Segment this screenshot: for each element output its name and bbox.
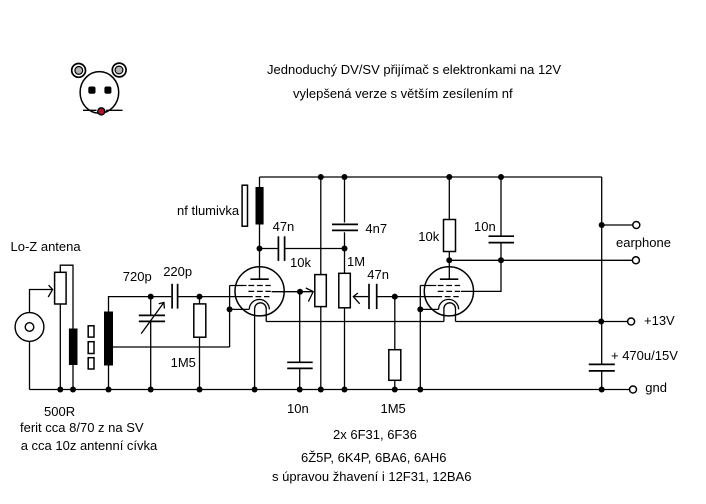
label 220p <box>163 265 192 278</box>
nf tlumivka coil <box>256 187 264 225</box>
V2 g3 tie to cathode and ground <box>419 286 421 390</box>
wire ground rail <box>30 389 630 391</box>
wire 220p to grid node <box>179 296 248 298</box>
variable capacitor 720p <box>139 297 165 390</box>
label 1M5 (tube1) <box>171 356 196 369</box>
V2 anode <box>448 260 450 279</box>
label tubes line 2 <box>301 451 447 464</box>
label antenni civka <box>21 439 158 452</box>
V1 g2 dashes <box>248 290 270 292</box>
wire heater rail left (tube1 to tube2) <box>266 321 444 323</box>
mouse nose <box>98 108 105 115</box>
label Lo-Z antena <box>11 240 81 253</box>
node +13V <box>598 319 604 325</box>
label tubes line 3 <box>272 470 471 483</box>
tube V2 (AF amplifier) <box>420 260 501 389</box>
V1 filament <box>255 303 267 390</box>
potentiometer 500R <box>55 272 67 304</box>
capacitor 10n output <box>489 177 515 260</box>
wire 1M5 top <box>394 297 396 350</box>
nf tlumivka core <box>242 185 247 226</box>
wire 10k top to rail <box>320 177 322 275</box>
tube V1 (detector) <box>230 249 285 390</box>
label 10n (bypass) <box>287 402 309 415</box>
V2 cathode arc <box>439 299 459 309</box>
node rail-4n7 <box>342 174 348 180</box>
mouse eyes <box>88 87 95 94</box>
main tuning coil on ferrite rod <box>104 312 113 366</box>
wiper arrow into 10k <box>306 288 313 302</box>
resistor 10k anode load tube2 <box>444 220 456 252</box>
node V1 g2 <box>297 289 303 295</box>
label earphone <box>616 236 671 249</box>
wire coil cathode tap <box>113 346 230 348</box>
capacitor 10n (screen bypass) <box>287 362 313 389</box>
capacitor 47n coupling (detector anode) <box>260 236 345 261</box>
wire antenna coil bottom to ground <box>72 365 74 390</box>
node rail-10n <box>498 174 504 180</box>
wire 1M5 top <box>199 297 201 304</box>
label + 470u/15V <box>611 349 678 362</box>
node earphone top <box>599 222 605 228</box>
label 720p <box>123 270 152 283</box>
node 220p-1M5 <box>197 294 203 300</box>
node 720p top <box>148 294 154 300</box>
wire 470u bottom to ground rail <box>601 371 603 390</box>
node V2 anode <box>446 257 452 263</box>
wire coil top to tuned node <box>109 297 172 312</box>
wire inductor bottom to anode node <box>259 225 261 249</box>
node rail-10k1 <box>318 174 324 180</box>
label 47n (grid2) <box>367 268 389 281</box>
label nf tlumivka <box>177 204 239 217</box>
wire inductor top to rail <box>259 177 261 187</box>
node V1 cathode <box>227 306 233 312</box>
node 4n7-1M <box>342 246 348 252</box>
wire 1M wiper to 47n <box>353 296 368 298</box>
ferrite rod <box>88 326 94 369</box>
resistor 1M5 grid leak tube1 <box>194 304 206 337</box>
label 10k (regen pot) <box>290 256 311 269</box>
capacitor 220p <box>172 284 178 309</box>
label tubes line 1 <box>333 428 417 441</box>
mouse whiskers <box>83 109 123 111</box>
V2 g2 dashes <box>438 290 460 292</box>
V2 g2 tie to anode supply <box>461 260 501 291</box>
label 10n (output) <box>474 220 496 233</box>
wire 1M bottom to ground <box>344 308 346 390</box>
node rail-10k2 <box>446 174 452 180</box>
wire 1M top <box>344 249 346 274</box>
resistor 1M5 grid leak tube2 <box>389 350 401 381</box>
label 4n7 <box>365 222 387 235</box>
V1 g3 tie to cathode <box>229 286 231 348</box>
V2 filament <box>444 303 456 322</box>
V1 g3 dashes <box>248 285 270 287</box>
wire 500R bottom to ground <box>59 304 61 390</box>
capacitor 47n coupling (tube2 grid) <box>369 284 437 309</box>
antenna jack J1 <box>15 313 44 342</box>
wire 10k bottom to ground <box>320 307 322 390</box>
terminal gnd <box>630 386 637 393</box>
wire 1M5 bottom to ground <box>394 380 396 389</box>
terminal +13V <box>628 318 635 325</box>
V1 cathode arc <box>249 299 269 309</box>
label 47n (detector) <box>273 220 295 233</box>
wire g2 node down to 10n <box>299 292 301 363</box>
wiper arrow into 500R <box>48 285 52 297</box>
wire jack bottom to ground <box>29 341 31 389</box>
label 1M <box>347 255 365 268</box>
wire jack top to wiper arrow <box>30 290 53 313</box>
wire coil bottom to ground <box>108 366 110 390</box>
V1 g1 dashes <box>247 296 269 298</box>
wire 500R top to antenna coil top <box>60 265 73 328</box>
title line 1 <box>267 63 561 76</box>
capacitor 4n7 <box>332 177 358 249</box>
wire tube1 g2 to wiper <box>272 291 313 293</box>
wiper arrow into 1M <box>353 293 359 304</box>
mouse logo <box>72 63 126 115</box>
label +13V <box>644 314 675 327</box>
label 500R <box>44 405 75 418</box>
node V1 anode <box>257 246 263 252</box>
potentiometer 10k (regeneration) <box>315 275 327 307</box>
wire right vertical bus <box>601 177 603 364</box>
V1 anode <box>259 249 261 280</box>
title line 2 <box>293 87 513 100</box>
V2 g3 dashes <box>438 285 460 287</box>
terminal earphone top <box>633 222 640 229</box>
node V2 grid <box>392 294 398 300</box>
node V2 cathode <box>417 306 423 312</box>
terminal earphone bottom <box>632 257 639 264</box>
wire earphone top stub <box>602 224 633 226</box>
node 10n out <box>498 257 504 263</box>
mouse left ear <box>72 64 86 78</box>
wire top supply rail <box>260 176 602 178</box>
mouse head <box>80 72 119 114</box>
V2 g1 dashes <box>436 296 458 298</box>
capacitor 470u/15V electrolytic <box>589 364 615 371</box>
antenna coupling coil (10 turns) <box>69 329 78 366</box>
wire 1M5 bottom to ground <box>199 337 201 389</box>
potentiometer 1M (volume) <box>339 273 351 308</box>
wire anode node to earphone bottom <box>449 259 632 261</box>
label 10k (anode load) <box>418 230 439 243</box>
wire 10k bottom to anode node <box>448 252 450 261</box>
label gnd <box>645 381 667 394</box>
wire 10k top to rail <box>448 177 450 220</box>
label 1M5 (tube2) <box>381 402 406 415</box>
wire heater rail right (tube2 to +13V) <box>456 321 628 323</box>
ground dots <box>57 387 63 393</box>
label ferit <box>20 421 144 434</box>
mouse right ear <box>112 63 126 77</box>
